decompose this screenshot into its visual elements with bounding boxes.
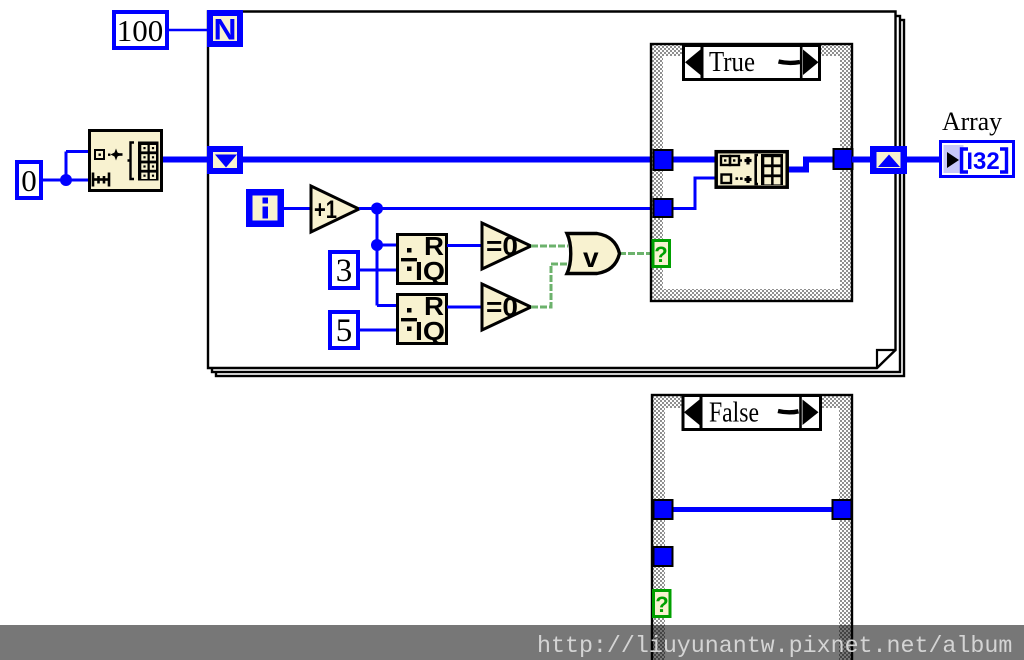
svg-text:3: 3	[336, 253, 353, 289]
svg-text:100: 100	[117, 13, 164, 48]
svg-text:+1: +1	[314, 196, 337, 224]
svg-text:=0: =0	[486, 231, 518, 261]
svg-text:N: N	[214, 14, 237, 47]
svg-text:v: v	[583, 242, 599, 273]
svg-text:http://liuyunantw.pixnet.net/a: http://liuyunantw.pixnet.net/album	[537, 633, 1012, 659]
svg-text:?: ?	[655, 592, 668, 617]
svg-text:IQ: IQ	[415, 316, 445, 346]
svg-text:0: 0	[21, 163, 37, 198]
svg-text:False: False	[709, 397, 759, 429]
svg-text:?: ?	[654, 242, 667, 267]
svg-text:5: 5	[336, 313, 353, 349]
svg-text:True: True	[709, 46, 755, 78]
svg-text:Array: Array	[942, 107, 1002, 136]
svg-text:IQ: IQ	[415, 256, 445, 286]
svg-text:I32: I32	[966, 148, 999, 175]
svg-text:=0: =0	[486, 292, 518, 322]
